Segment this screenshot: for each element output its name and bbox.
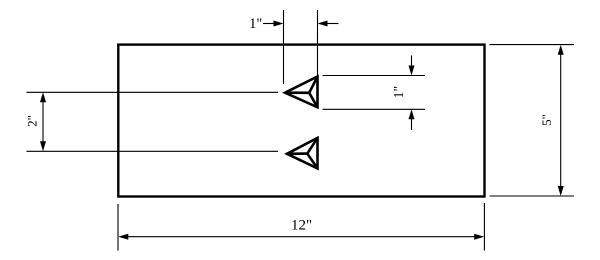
5in dimension bottom arrowhead [558,186,564,196]
5in dimension top extension line [490,44,575,46]
1in top dimension left arrowhead [274,21,284,27]
1in top dimension right extension line [317,10,319,76]
12in dimension line with arrows [125,236,478,238]
svg-text:12": 12" [291,218,312,234]
12in dimension left arrowhead [118,234,128,240]
bottom countersink marker triangle [287,138,318,169]
1in vertical dimension bottom arrowhead [409,109,415,119]
1in top dimension right arrowhead [318,21,328,27]
leader line to top marker [27,91,279,93]
5in dimension line with arrows [560,51,562,190]
12in dimension left extension line [117,204,119,251]
svg-text:5": 5" [539,114,554,126]
2in dimension top arrowhead [40,92,46,102]
svg-text:1": 1" [249,16,262,32]
leader line to bottom marker [27,150,279,152]
svg-text:2": 2" [25,115,40,127]
top countersink marker triangle [285,77,318,108]
2in dimension line with arrows [42,99,44,145]
1in vertical dimension bottom extension line [323,108,426,110]
12in dimension right arrowhead [474,234,484,240]
svg-text:1": 1" [392,86,407,99]
1in top dimension left extension line [283,10,285,84]
plate outline rectangle 12in x 5in [118,45,484,197]
1in vertical dimension bottom arrow line [411,116,413,130]
5in dimension top arrowhead [558,45,564,55]
5in dimension bottom extension line [490,195,575,197]
1in top dimension left arrow line [263,23,276,25]
1in vertical dimension top extension line [323,75,426,77]
2in dimension bottom arrowhead [40,141,46,151]
12in dimension right extension line [483,203,485,251]
1in top dimension right arrow line [325,23,339,25]
1in vertical dimension top arrowhead [409,66,415,76]
1in vertical dimension top arrow line [411,56,413,69]
